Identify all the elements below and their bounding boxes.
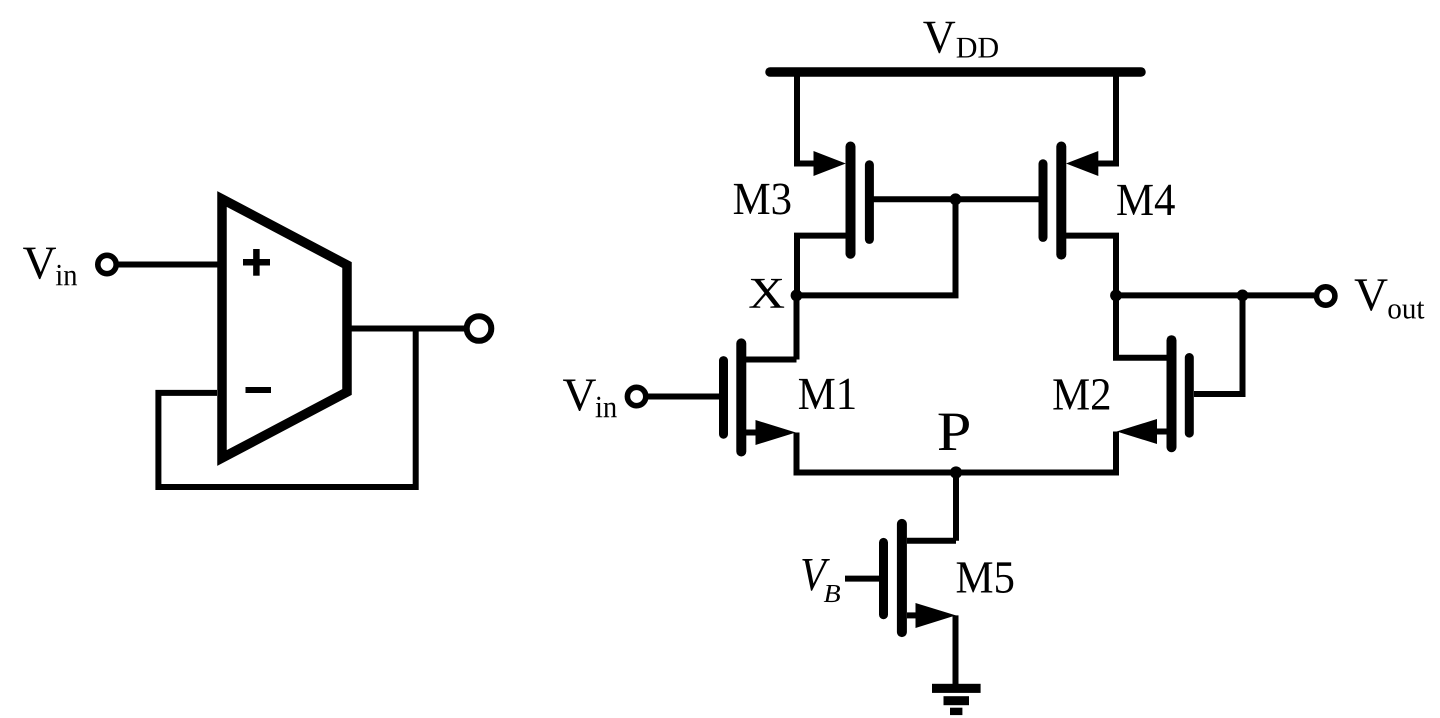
label M2 [1053, 379, 1109, 409]
wire: VDD rail to M4 source [1113, 72, 1119, 167]
input terminal (Vin right) [627, 387, 645, 405]
wire: M2 drain from output row [1116, 295, 1167, 357]
label Vout [1355, 279, 1388, 310]
wire: M2 gate to output row [1194, 295, 1243, 394]
wire: gates junction down to X row [953, 199, 959, 295]
transistor M2 channel bar [1167, 340, 1177, 447]
label M1 [799, 379, 855, 409]
M5 source arrow (points away from channel) [916, 603, 956, 628]
junction dot (gates) [950, 193, 962, 205]
wire: gate row M3-M4 [873, 196, 1039, 202]
M3 source arrow (points into channel) [814, 151, 846, 176]
wire: output row [1116, 292, 1314, 298]
wire: feedback loop from output to - input [158, 329, 415, 488]
transistor M5 gate bar [879, 542, 888, 614]
label M5 [957, 562, 1014, 593]
wire: M1 source lead stub [746, 430, 762, 436]
wire: M3 drain lead to X [797, 236, 846, 296]
wire: VB gate lead [845, 576, 879, 582]
wire: X row (diode connection) [797, 292, 959, 298]
wire: X down to M1 drain [794, 295, 800, 359]
wire: M2 source down to P row [1113, 432, 1119, 476]
output terminal (op-amp) [467, 316, 492, 341]
label M3 [734, 184, 791, 215]
wire: M3 source lead [797, 161, 825, 167]
transistor M3 channel bar [846, 147, 856, 254]
transistor M1 channel bar [736, 343, 746, 451]
ground [932, 684, 981, 715]
label P [939, 414, 969, 450]
transistor M4 channel bar [1056, 147, 1066, 255]
wire: P row (tail) [794, 470, 1120, 476]
transistor M5 channel bar [897, 524, 907, 632]
wire: Vin terminal to op-amp + input [116, 262, 222, 268]
wire: M5 drain lead [907, 538, 956, 544]
wire: Vin to M1 gate [646, 394, 719, 400]
M2 source arrow (points away from channel) [1117, 419, 1157, 444]
wire: M5 source lead stub [907, 612, 922, 618]
M1 source arrow (points away from channel) [756, 420, 796, 445]
label X [749, 279, 784, 308]
wire: M2 source lead stub [1152, 429, 1167, 435]
wire: M5 source down to ground [953, 615, 959, 688]
label VDD [923, 22, 955, 53]
op-amp U1 (trapezoid body) [222, 199, 347, 458]
input terminal (Vin) [98, 255, 116, 273]
transistor M3 gate bar [865, 165, 874, 240]
wire: op-amp output [347, 326, 465, 332]
M4 source arrow (points into channel) [1066, 151, 1098, 176]
label M4 [1117, 185, 1175, 215]
junction dot (M4 drain / output) [1110, 290, 1122, 302]
wire: M1 source down to P row [794, 433, 800, 476]
label Vin (right) [563, 380, 596, 411]
transistor M1 gate bar [719, 361, 728, 435]
output terminal (Vout) [1317, 287, 1335, 305]
label Vin (left) [23, 248, 56, 279]
node X dot [791, 290, 803, 302]
junction dot (M2 gate tap) [1237, 290, 1249, 302]
transistor M2 gate bar [1185, 358, 1194, 434]
label VB [802, 559, 830, 591]
wire: P down to M5 drain [953, 473, 959, 541]
op-amp - input mark [246, 387, 272, 393]
op-amp + input mark [243, 249, 270, 276]
wire: M1 drain lead [746, 357, 797, 363]
wire: M4 drain lead down to output row [1066, 236, 1116, 296]
node P dot [950, 466, 962, 478]
transistor M4 gate bar [1039, 164, 1048, 238]
wire: M4 source lead [1090, 161, 1116, 167]
wire: VDD rail to M3 source [794, 72, 800, 167]
VDD rail [770, 67, 1141, 77]
